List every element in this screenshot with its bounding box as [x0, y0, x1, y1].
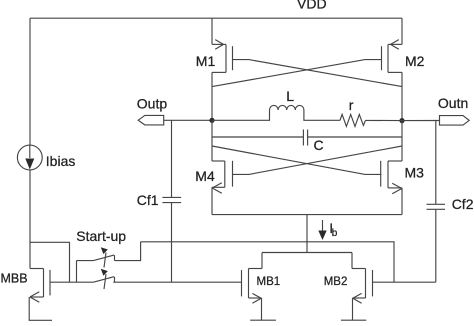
svg-text:Cf1: Cf1: [137, 192, 159, 208]
transistor MBB: [30, 268, 44, 270]
transistor M4: [211, 120, 213, 161]
ground MB1: [250, 319, 276, 321]
svg-text:M4: M4: [195, 168, 215, 184]
Outp tag: [138, 115, 164, 125]
inductor L: [212, 110, 270, 120]
start-up switch lower: [70, 281, 94, 283]
svg-text:Outn: Outn: [438, 95, 468, 111]
svg-text:L: L: [286, 88, 294, 104]
ground MBB: [29, 297, 52, 320]
cross-coupling down-right to M4 gate: [233, 146, 403, 174]
svg-text:MB2: MB2: [324, 276, 348, 288]
capacitor Cf2: [435, 121, 437, 205]
svg-text:Start-up: Start-up: [76, 228, 126, 244]
svg-text:C: C: [314, 137, 324, 153]
node Outp: [209, 118, 214, 123]
transistor MB1: [261, 253, 263, 269]
tail wire with Ib: [306, 215, 308, 253]
cross-coupling down-left to M3 gate: [212, 146, 382, 174]
wire Ibias to MBB: [29, 170, 31, 269]
wire r to Outn node: [366, 119, 403, 121]
ground MB2: [341, 319, 366, 321]
long startup line: [141, 242, 394, 282]
svg-text:Cf2: Cf2: [452, 196, 474, 212]
capacitor Cf1: [171, 120, 173, 197]
cross-coupling M2 gate to M1 drain: [212, 60, 382, 87]
transistor M2: [401, 18, 403, 44]
svg-text:MBB: MBB: [1, 272, 28, 286]
cross-coupling M1 gate to M2 drain: [233, 60, 403, 87]
svg-text:Outp: Outp: [137, 95, 168, 111]
node tee to MBB gate branch: [30, 242, 70, 282]
svg-text:b: b: [332, 228, 338, 239]
Outn tag: [440, 116, 470, 126]
svg-text:M2: M2: [405, 53, 425, 69]
svg-text:Ibias: Ibias: [46, 153, 76, 169]
svg-text:M3: M3: [405, 165, 425, 181]
transistor M1: [211, 18, 213, 44]
wire node to Outn tag: [402, 120, 440, 122]
svg-text:M1: M1: [196, 53, 216, 69]
svg-text:VDD: VDD: [297, 0, 327, 12]
current source Ibias: [17, 145, 42, 170]
svg-text:r: r: [349, 97, 354, 113]
wire MB1-MB2 drain link: [262, 252, 352, 254]
transistor MB2: [351, 253, 353, 269]
wire C line: [212, 136, 303, 138]
Ib arrow: [322, 220, 324, 232]
wire Outp to node: [164, 119, 212, 121]
svg-text:MB1: MB1: [257, 276, 281, 288]
VDD rail: [30, 17, 402, 19]
wire left vertical from rail to Ibias: [29, 18, 31, 145]
node Outn: [399, 118, 404, 123]
tail rail: [212, 214, 402, 216]
capacitor C: [302, 130, 304, 146]
start-up switch upper: [76, 261, 78, 283]
transistor M3: [401, 121, 403, 161]
resistor r: [340, 114, 366, 126]
